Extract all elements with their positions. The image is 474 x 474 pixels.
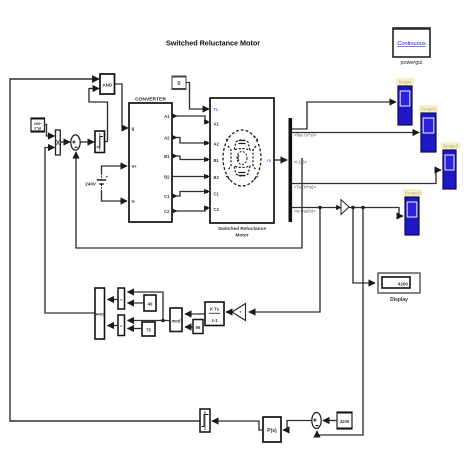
constant block 4200: [337, 412, 352, 429]
svg-text:V-: V-: [132, 199, 137, 204]
wire mod branch to compare1: [128, 292, 164, 321]
wire mux output to sum1: [60, 141, 70, 143]
wire w branch to sum2 bottom: [317, 208, 363, 436]
display block: [378, 273, 420, 303]
converter block: [129, 97, 172, 223]
title Switched Reluctance Motor: [166, 39, 260, 48]
wire phase C2 converter to motor: [172, 206, 209, 211]
svg-text:Display: Display: [390, 297, 408, 303]
svg-text:V+: V+: [132, 164, 138, 169]
svg-text:Switched Reluctance Motor: Switched Reluctance Motor: [166, 39, 260, 48]
wire bus output w through gain2 to scope4: [292, 208, 403, 217]
wire relay output loop to AND1 input 2: [89, 89, 108, 142]
svg-text:Scope3: Scope3: [405, 191, 421, 196]
svg-text:A2: A2: [164, 135, 170, 140]
wire bus output flux to scope2: [292, 132, 419, 134]
constant block 0: [172, 76, 186, 90]
wire big left loop from saturation to AND1 input 1: [10, 79, 200, 421]
svg-text:Motor: Motor: [235, 233, 248, 239]
svg-text:A1: A1: [164, 114, 170, 119]
svg-text:AND: AND: [102, 82, 113, 87]
PI controller block P(s): [263, 417, 281, 442]
wire constant 4200 to sum2: [323, 420, 337, 422]
svg-text:Scope1: Scope1: [421, 107, 437, 112]
svg-text:0: 0: [178, 81, 181, 87]
svg-text:4200: 4200: [340, 419, 350, 424]
motor icon cross-section: [223, 130, 261, 186]
relational operator compare2: [118, 315, 125, 336]
label Switched Reluctance Motor (block name): [218, 226, 266, 239]
label i: [294, 160, 307, 165]
svg-text:powergui: powergui: [401, 60, 423, 66]
wire mod output to compare2: [128, 320, 171, 322]
svg-text:Scope2: Scope2: [443, 144, 459, 149]
wire AND1 output to converter g input: [115, 84, 129, 128]
scope2 block: [419, 105, 438, 152]
wire sum2 output to PI controller: [283, 421, 312, 431]
wire compare2 to AND2: [108, 325, 119, 327]
svg-text:240V: 240V: [85, 182, 97, 187]
wire constant 75 to compare2: [128, 328, 143, 330]
constant block 96: [193, 320, 203, 334]
svg-text:AND: AND: [95, 312, 104, 317]
dc voltage source 240V wire to converter V+: [102, 166, 128, 174]
wire AND2 output up to mux input 2: [45, 148, 95, 314]
dc voltage source 240V wire to converter V-: [102, 191, 128, 202]
svg-text:m: m: [267, 158, 271, 163]
powergui block: [393, 28, 430, 66]
scope1 block: [396, 78, 414, 125]
svg-text:2*pi: 2*pi: [34, 125, 41, 130]
dc voltage source 240V battery symbol: [97, 174, 109, 191]
math function block mod: [170, 308, 182, 332]
wire phase A2 converter to motor: [172, 138, 209, 145]
svg-text:Continuous: Continuous: [397, 41, 426, 47]
svg-text:C2: C2: [214, 207, 220, 212]
sum block sum2: [312, 413, 321, 429]
svg-text:75: 75: [146, 328, 151, 333]
wire bus output 1 to scope1: [292, 102, 396, 129]
svg-text:*: *: [240, 310, 242, 315]
wire motor m output to bus selector: [274, 159, 287, 161]
wire PI output to saturation: [212, 421, 263, 430]
motor block Switched Reluctance Motor: [210, 98, 274, 223]
mux block: [56, 130, 61, 155]
label flux: [294, 133, 317, 138]
junction node at 320: [318, 206, 322, 210]
gain block gain1: [232, 304, 246, 321]
discrete integrator block K Ts/z-1: [205, 302, 224, 326]
wire constant 200 to mux input 1: [44, 125, 55, 137]
svg-text:4200: 4200: [398, 282, 409, 287]
logical operator AND2: [95, 288, 105, 339]
svg-text:TL: TL: [214, 107, 220, 112]
svg-text:P(s): P(s): [267, 428, 277, 434]
svg-text:CONVERTER: CONVERTER: [135, 97, 166, 103]
svg-text:<i (A)>: <i (A)>: [294, 160, 307, 165]
wire phase C1 converter to motor: [172, 190, 209, 196]
svg-text:K Ts: K Ts: [210, 307, 220, 312]
wire constant 0 to motor TL input: [186, 83, 209, 110]
wire speed feedback to sum1 bottom: [76, 152, 302, 248]
svg-text:B1: B1: [214, 158, 220, 163]
constant block 75: [142, 322, 155, 336]
svg-text:C1: C1: [214, 192, 220, 197]
label 240V: [85, 182, 97, 187]
svg-text:Switched Reluctance: Switched Reluctance: [218, 226, 266, 232]
svg-text:C2: C2: [164, 209, 170, 214]
svg-text:g: g: [132, 126, 135, 131]
wire bus output Te to scope3: [292, 170, 441, 184]
relational operator compare1: [118, 288, 125, 309]
wire w branch to display: [353, 208, 375, 284]
svg-text:B1: B1: [164, 154, 170, 159]
junction node mod output branch: [161, 319, 164, 322]
sum block sum1: [71, 135, 80, 150]
junction node at 363: [361, 206, 365, 210]
svg-text:<flux (V*s)>: <flux (V*s)>: [294, 133, 317, 138]
label Te: [294, 185, 316, 190]
svg-text:40: 40: [148, 302, 153, 307]
svg-text:C1: C1: [164, 194, 170, 199]
junction node at 353: [351, 206, 355, 210]
svg-text:mod: mod: [172, 319, 181, 324]
logical operator AND1: [100, 74, 115, 94]
constant block 40: [144, 295, 156, 311]
svg-text:<w (rad/s)>: <w (rad/s)>: [294, 209, 316, 214]
wire phase B2 converter to motor: [172, 175, 209, 179]
label w: [294, 209, 316, 214]
svg-text:A2: A2: [214, 142, 220, 147]
wire constant 96 to mod: [185, 326, 193, 328]
relay block: [95, 131, 105, 153]
scope4 block: [403, 189, 422, 235]
wire compare1 to AND2: [108, 299, 119, 301]
wire phase A1 converter to motor: [172, 116, 209, 124]
wire w branch to position sensor chain: [249, 208, 320, 313]
svg-text:Scope: Scope: [398, 80, 411, 85]
svg-text:B2: B2: [164, 174, 170, 179]
constant block 200: [31, 118, 45, 132]
saturation block: [200, 409, 210, 432]
wire phase B1 converter to motor: [172, 156, 209, 161]
svg-text:96: 96: [196, 325, 201, 330]
wire sum1 output to relay: [80, 141, 94, 143]
svg-text:B2: B2: [214, 175, 220, 180]
wire integrator to mod: [185, 313, 205, 315]
gain block gain2: [341, 200, 349, 215]
svg-text:z-1: z-1: [212, 318, 219, 323]
scope3 block: [441, 142, 460, 189]
wire gain1 to discrete integrator: [226, 311, 232, 313]
svg-text:+: +: [106, 175, 109, 180]
svg-text:<Te (N*m)>: <Te (N*m)>: [294, 185, 316, 190]
wire constant 40 to compare1: [128, 302, 145, 304]
svg-text:A1: A1: [214, 122, 220, 127]
bus selector bar: [289, 118, 293, 222]
